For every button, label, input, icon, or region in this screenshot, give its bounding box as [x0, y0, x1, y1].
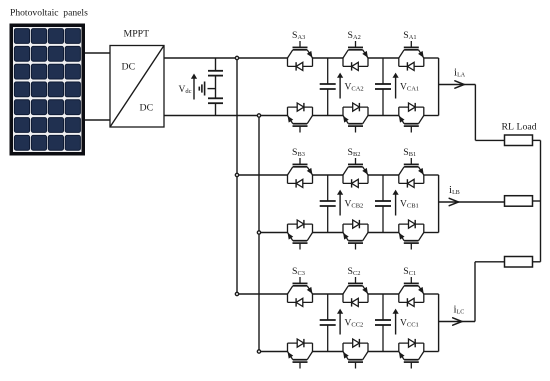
node DC+ / phase B junction: [235, 173, 238, 176]
dc-link capacitor C1 (upper): [208, 58, 223, 98]
svg-text:SB3: SB3: [292, 147, 305, 158]
svg-text:VCC2: VCC2: [345, 319, 364, 329]
switch S_C3' lower (IGBT + antiparallel diode): [288, 339, 313, 369]
current arrow i_LA: [455, 81, 464, 88]
flying capacitor CA1: [382, 58, 384, 84]
wire phase B top rail seg SB1-output: [424, 174, 439, 176]
flying capacitor CB1: [382, 175, 384, 201]
switch S_A3 (IGBT + antiparallel diode): [288, 41, 313, 71]
current arrow i_LB: [449, 198, 458, 205]
wire phase B output to load R2: [439, 201, 505, 203]
switch S_B3 (IGBT + antiparallel diode): [288, 158, 313, 188]
switch S_C1 (IGBT + antiparallel diode): [399, 277, 424, 307]
wire phase A top rail seg SA1-output: [424, 57, 439, 59]
arrow V_CB2: [339, 193, 341, 216]
svg-text:VCA1: VCA1: [400, 83, 419, 93]
wire DC+ rail (MPPT to phase legs): [164, 57, 288, 59]
wire phase C output vertical: [438, 294, 440, 352]
svg-text:SB2: SB2: [348, 147, 361, 158]
midpoint reference (ground) symbol: [199, 82, 215, 96]
switch S_A2 (IGBT + antiparallel diode): [343, 41, 368, 71]
wire phase A output to load R1: [439, 85, 505, 141]
svg-text:RL Load: RL Load: [502, 122, 537, 133]
svg-text:MPPT: MPPT: [124, 28, 150, 39]
wire R3 to neutral bus: [533, 261, 541, 263]
wire PV+ to MPPT: [85, 52, 110, 54]
wire phase C top rail from DC+ bus: [237, 293, 288, 295]
wire neutral bus: [540, 140, 542, 261]
wire PV- to MPPT: [85, 119, 110, 121]
wire phase A bottom rail seg SA2-SA1: [368, 115, 399, 117]
wire vertical DC- bus: [258, 116, 260, 352]
load resistor R3 (phase C): [505, 257, 533, 268]
photovoltaic panel PV: [10, 24, 86, 156]
svg-text:SA3: SA3: [292, 30, 305, 41]
switch S_A1 (IGBT + antiparallel diode): [399, 41, 424, 71]
wire phase C bottom rail seg SC2-SC1: [368, 351, 399, 353]
switch S_B1' lower (IGBT + antiparallel diode): [399, 220, 424, 250]
wire phase B output vertical: [438, 175, 440, 233]
wire phase B bottom rail from DC- bus: [259, 232, 288, 234]
switch S_A3' lower (IGBT + antiparallel diode): [288, 103, 313, 133]
switch S_B2' lower (IGBT + antiparallel diode): [343, 220, 368, 250]
svg-text:Photovoltaic panels: Photovoltaic panels: [10, 7, 88, 18]
wire phase B top rail from DC+ bus: [237, 174, 288, 176]
switch S_B1 (IGBT + antiparallel diode): [399, 158, 424, 188]
svg-text:VCB1: VCB1: [400, 200, 419, 210]
switch S_C2' lower (IGBT + antiparallel diode): [343, 339, 368, 369]
svg-text:SA1: SA1: [403, 30, 416, 41]
svg-text:iLA: iLA: [454, 67, 466, 79]
wire DC- rail (MPPT to phase legs): [164, 115, 288, 117]
wire phase C top rail seg SC1-output: [424, 293, 439, 295]
node DC- / phase C junction: [257, 350, 260, 353]
svg-text:SB1: SB1: [403, 147, 416, 158]
switch S_B2 (IGBT + antiparallel diode): [343, 158, 368, 188]
flying capacitor CA2: [327, 58, 329, 84]
switch S_A1' lower (IGBT + antiparallel diode): [399, 103, 424, 133]
load resistor R1 (phase A): [505, 135, 533, 146]
wire phase C bottom rail seg SC3-SC2: [313, 351, 344, 353]
svg-text:SC2: SC2: [348, 266, 361, 277]
switch S_C1' lower (IGBT + antiparallel diode): [399, 339, 424, 369]
node DC+ / phase A junction: [235, 56, 238, 59]
load resistor R2 (phase B): [505, 196, 533, 207]
arrow V_CB1: [395, 193, 397, 216]
wire R2 to neutral bus: [533, 200, 541, 202]
wire phase A output vertical: [438, 58, 440, 116]
wire phase B bottom rail seg SB3-SB2: [313, 232, 344, 234]
node DC- / phase B junction: [257, 231, 260, 234]
switch S_C2 (IGBT + antiparallel diode): [343, 277, 368, 307]
wire phase B bottom rail seg SB1-output: [424, 232, 439, 234]
switch S_C3 (IGBT + antiparallel diode): [288, 277, 313, 307]
svg-text:DC: DC: [122, 62, 136, 73]
wire phase C bottom rail from DC- bus: [259, 351, 288, 353]
flying capacitor CC1: [382, 294, 384, 320]
wire R1 to neutral bus: [533, 139, 541, 141]
svg-text:VCB2: VCB2: [345, 200, 364, 210]
wire phase C top rail seg SC3-SC2: [313, 293, 344, 295]
arrow V_CA2: [339, 76, 341, 99]
svg-text:VCA2: VCA2: [345, 83, 364, 93]
svg-text:DC: DC: [140, 103, 154, 114]
arrow Vdc: [193, 77, 195, 100]
arrow V_CC2: [339, 312, 341, 335]
svg-text:VCC1: VCC1: [400, 319, 419, 329]
svg-text:iLC: iLC: [454, 304, 465, 316]
wire phase B bottom rail seg SB2-SB1: [368, 232, 399, 234]
switch S_B3' lower (IGBT + antiparallel diode): [288, 220, 313, 250]
wire phase A bottom rail seg SA1-output: [424, 115, 439, 117]
wire phase C output to load R3: [439, 262, 505, 322]
wire phase A bottom rail seg SA3-SA2: [313, 115, 344, 117]
flying capacitor CC2: [327, 294, 329, 320]
arrow V_CC1: [395, 312, 397, 335]
node DC- / phase A junction: [257, 114, 260, 117]
switch S_A2' lower (IGBT + antiparallel diode): [343, 103, 368, 133]
wire phase C bottom rail seg SC1-output: [424, 351, 439, 353]
current arrow i_LC: [453, 318, 462, 325]
flying capacitor CB2: [327, 175, 329, 201]
svg-text:SC1: SC1: [403, 266, 416, 277]
wire phase A top rail seg SA2-SA1: [368, 57, 399, 59]
wire phase C top rail seg SC2-SC1: [368, 293, 399, 295]
svg-text:iLB: iLB: [449, 184, 460, 196]
dc-link capacitor C2 (lower): [208, 98, 223, 115]
wire vertical DC+ bus: [236, 58, 238, 294]
node DC+ / phase C junction: [235, 292, 238, 295]
wire phase A top rail seg SA3-SA2: [313, 57, 344, 59]
arrow V_CA1: [395, 76, 397, 99]
svg-text:SC3: SC3: [292, 266, 305, 277]
wire phase B top rail seg SB3-SB2: [313, 174, 344, 176]
MPPT DC/DC converter block: [110, 46, 164, 128]
svg-text:SA2: SA2: [348, 30, 361, 41]
wire phase B top rail seg SB2-SB1: [368, 174, 399, 176]
svg-text:Vdc: Vdc: [179, 85, 192, 95]
